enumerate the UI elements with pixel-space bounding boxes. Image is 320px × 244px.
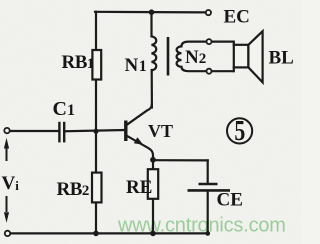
capacitor CE [188, 184, 231, 190]
resistor RE [148, 169, 158, 199]
capacitor C1 [59, 122, 64, 143]
svg-text:RB1: RB1 [62, 52, 94, 73]
wire emitter to RE [152, 160, 154, 169]
wire N2 bottom to speaker [233, 67, 235, 71]
transformer core [167, 37, 170, 76]
svg-text:5: 5 [234, 116, 245, 146]
node: CE ground junction [205, 231, 210, 236]
power terminal EC [206, 10, 211, 15]
wire input to C1 [10, 130, 59, 132]
wire RB1 top drop [95, 12, 97, 50]
emitter arrow [134, 137, 143, 145]
wire RE bottom [152, 199, 154, 234]
wire top rail [95, 11, 206, 14]
transformer secondary N2 [177, 42, 234, 72]
Vi up arrow [6, 146, 8, 161]
wire N2 top to speaker [233, 42, 235, 45]
node: rail/N1 junction [149, 9, 155, 15]
wire emitter node to CE [153, 159, 208, 161]
svg-text:C1: C1 [53, 98, 75, 120]
input terminal top [4, 128, 9, 133]
figure number 5 circled [227, 118, 252, 143]
terminal on N2 bottom wire [207, 69, 212, 74]
wire N1 branch from rail [150, 12, 152, 36]
transistor VT [126, 104, 153, 159]
svg-text:N1: N1 [125, 55, 147, 76]
node: emitter junction [150, 157, 156, 163]
svg-text:EC: EC [224, 7, 250, 28]
node: RE ground junction [150, 231, 156, 237]
resistor RB1 [92, 50, 101, 80]
wire N1 bottom to collector bend [151, 70, 153, 108]
Vi down arrow [6, 196, 8, 212]
svg-text:VT: VT [148, 121, 173, 141]
svg-text:RB2: RB2 [57, 179, 89, 200]
wire bottom rail [10, 232, 208, 234]
terminal on N2 top wire [207, 39, 212, 44]
input terminal bottom [5, 231, 10, 236]
wire C1 to base [66, 130, 125, 131]
node: base junction [93, 129, 98, 134]
wire CE bottom lead [207, 192, 209, 234]
svg-text:RE: RE [126, 177, 152, 198]
svg-text:N2: N2 [185, 47, 206, 68]
resistor RB2 [92, 173, 102, 203]
wire CE top lead [207, 160, 209, 182]
svg-text:CE: CE [217, 190, 243, 211]
svg-text:BL: BL [269, 48, 294, 69]
transformer primary N1 [152, 36, 157, 70]
node: RB2 ground junction [93, 231, 99, 237]
wire RB1 to base node [95, 80, 97, 132]
wire RB2 top [95, 131, 97, 172]
wire RB2 bottom [95, 202, 97, 233]
speaker BL [234, 45, 249, 68]
